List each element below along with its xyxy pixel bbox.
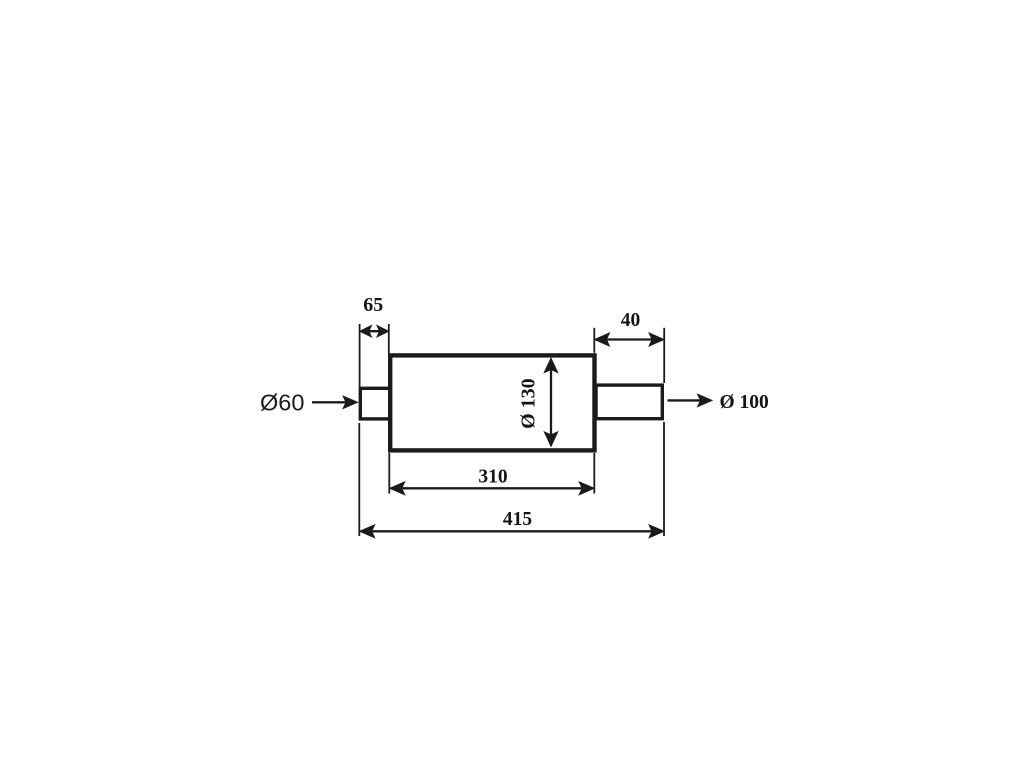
- vertical dimension line 130: [550, 367, 552, 438]
- arrowhead 65 left: [360, 326, 372, 337]
- svg-text:415: 415: [503, 509, 533, 530]
- arrowhead 415 left: [360, 525, 374, 537]
- extension line 415 right (x=664 lower segment): [663, 422, 665, 536]
- outlet pipe (right, Ø100): [596, 385, 662, 419]
- arrowhead 65 right: [377, 326, 389, 337]
- leader arrow for diameter 100: [668, 399, 704, 401]
- inlet pipe (left, Ø60): [360, 388, 391, 419]
- arrowhead 40 left: [595, 333, 609, 345]
- svg-text:Ø 100: Ø 100: [720, 392, 769, 413]
- extension line 310 left (x=389.3): [388, 453, 390, 494]
- arrowhead 130 bottom: [545, 432, 558, 446]
- extension line 40 right (x=664.2 upper segment): [663, 328, 665, 383]
- arrowhead 40 right: [650, 333, 664, 345]
- dimension line 65: [361, 330, 388, 332]
- arrowhead 310 right: [580, 482, 594, 494]
- extension line 40 left (x=594.3): [593, 328, 595, 353]
- leader arrow for diameter 60: [312, 401, 348, 403]
- dimension line 415: [361, 530, 663, 532]
- muffler body rectangle: [390, 355, 594, 450]
- extension line 415 left (x=359.3 lower segment): [358, 423, 360, 536]
- arrowhead 415 right: [650, 525, 664, 537]
- svg-text:Ø 130: Ø 130: [518, 378, 540, 429]
- svg-text:Ø60: Ø60: [260, 390, 304, 416]
- dimension line 40: [596, 338, 663, 340]
- svg-text:40: 40: [621, 310, 641, 331]
- arrowhead diameter 60: [344, 397, 358, 409]
- arrowhead 310 left: [390, 482, 404, 494]
- svg-text:310: 310: [478, 467, 507, 488]
- extension line 65 right / body top-left (x=388.8): [388, 324, 390, 353]
- svg-text:65: 65: [363, 294, 383, 316]
- arrowhead 130 top: [545, 359, 558, 373]
- extension line 310 right (x=594.3): [593, 453, 595, 494]
- arrowhead diameter 100: [698, 395, 712, 407]
- dimension line 310: [391, 487, 593, 489]
- extension line 65 left (x=359.6): [359, 324, 361, 387]
